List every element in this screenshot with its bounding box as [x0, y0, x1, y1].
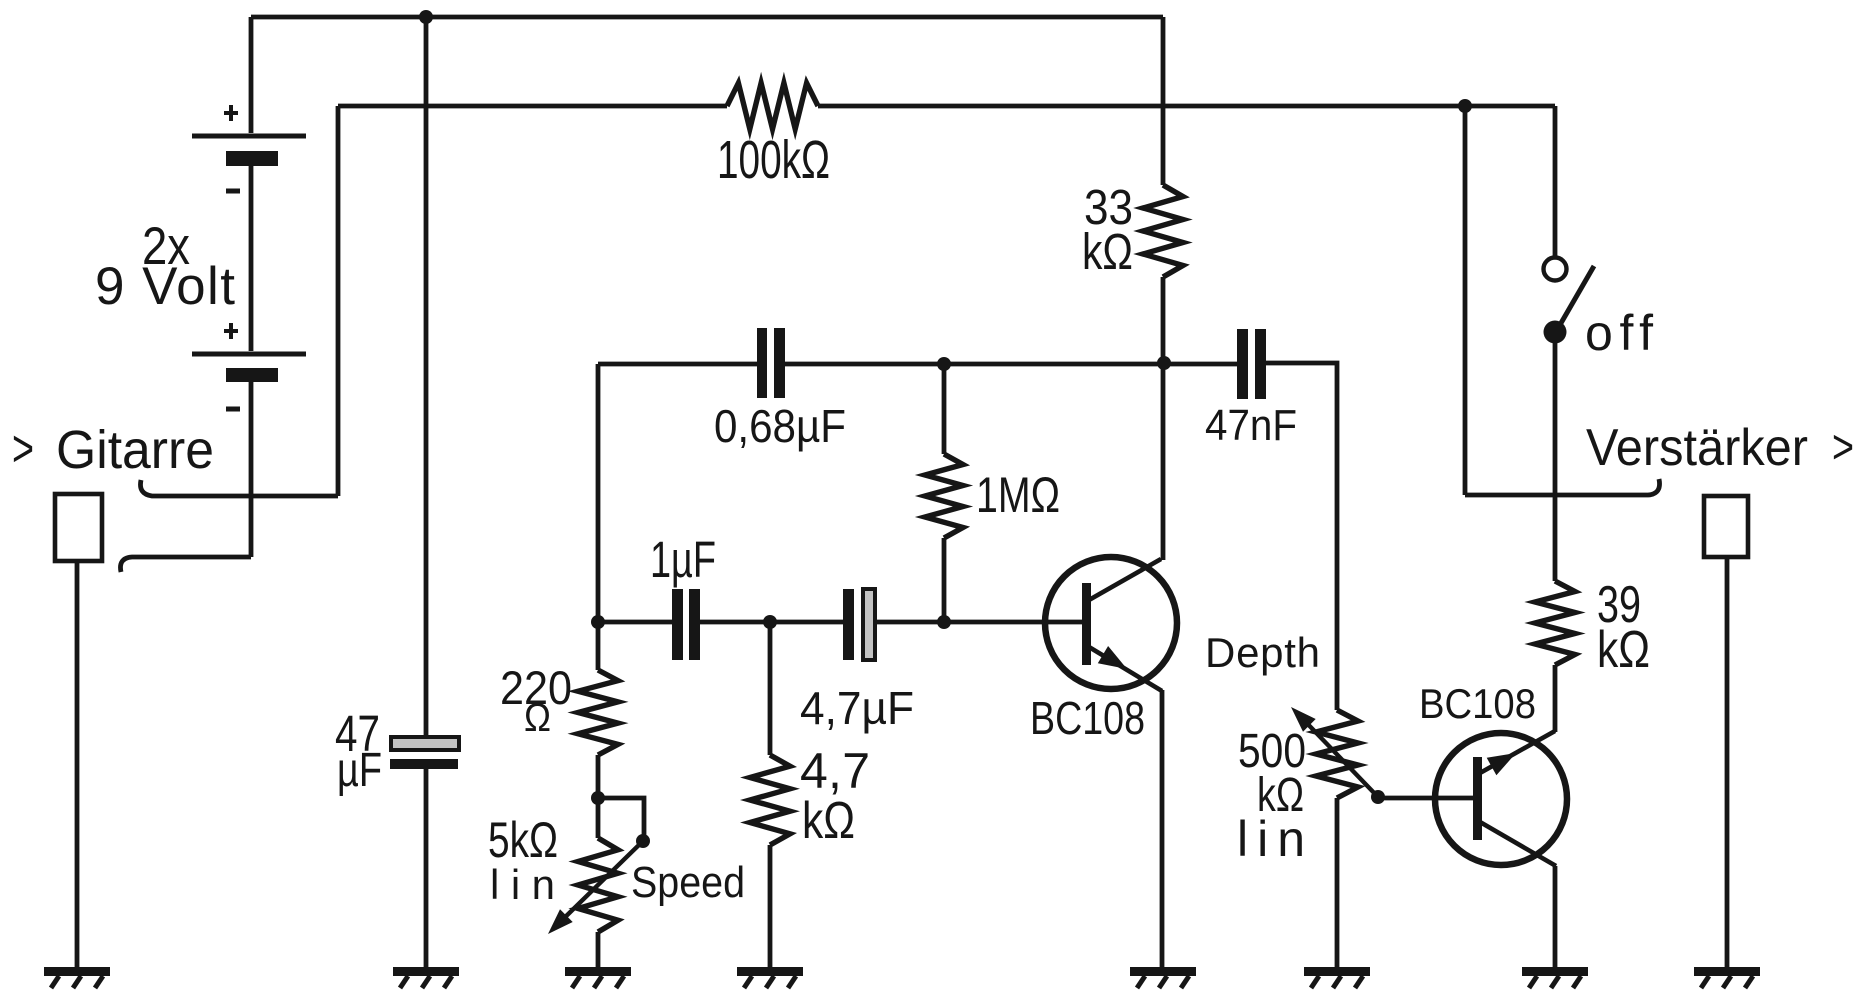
- wire feedback loop left vertical: [596, 364, 601, 622]
- wire 47uF to ground: [424, 769, 429, 967]
- ground Q1 emitter: [1130, 967, 1196, 976]
- wire Q1 emitter to ground: [1160, 690, 1165, 967]
- wire feedback loop left: [598, 362, 758, 367]
- svg-text:kΩ: kΩ: [802, 792, 855, 850]
- wire 4.7k to ground: [768, 845, 773, 967]
- node junction top rail / 47uF branch: [419, 10, 433, 24]
- resistor R1 100k: [727, 83, 818, 129]
- battery plus mark 2: [224, 323, 238, 339]
- connector input jack: [55, 494, 102, 561]
- battery minus mark 1: [226, 189, 240, 194]
- svg-text:kΩ: kΩ: [1082, 223, 1133, 280]
- wire feedback loop mid: [785, 362, 1237, 367]
- svg-text:1MΩ: 1MΩ: [976, 467, 1060, 523]
- wire 47uF branch from top rail: [424, 17, 429, 738]
- wire 33k to collector node: [1161, 277, 1166, 560]
- ground speed pot: [565, 967, 631, 976]
- wire mid supply rail left of 100k: [338, 104, 727, 109]
- svg-text:BC108: BC108: [1030, 692, 1145, 744]
- capacitor C3 4.7uF electrolytic: [843, 589, 875, 660]
- transistor Q1 BC108: [1045, 557, 1177, 691]
- ground output jack: [1694, 967, 1760, 976]
- ground Q2: [1522, 967, 1588, 976]
- wire switch to 39k: [1553, 343, 1558, 581]
- potentiometer P2 500k lin Depth: [1316, 710, 1358, 798]
- ground depth pot: [1304, 967, 1370, 976]
- wire output hot with hook: [1465, 479, 1660, 495]
- wire base line segment 1: [598, 620, 673, 625]
- svg-text:Gitarre: Gitarre: [56, 420, 214, 480]
- svg-text:Speed: Speed: [631, 858, 745, 907]
- ground 4.7k: [737, 967, 803, 976]
- node wiper connection: [636, 834, 650, 848]
- switch S1 off: [1544, 258, 1595, 344]
- wiper arrow of depth pot: [1291, 707, 1378, 797]
- wire speed pot to ground: [596, 932, 601, 967]
- wire output branch down: [1463, 106, 1468, 495]
- wire mid rail down to input hot: [336, 106, 341, 496]
- svg-text:µF: µF: [337, 744, 382, 797]
- connector output jack: [1704, 496, 1748, 557]
- node left end of base line: [591, 615, 605, 629]
- wire output jack to ground: [1725, 557, 1730, 967]
- wire top rail corner down: [1161, 17, 1166, 185]
- wire 1M top: [942, 364, 947, 454]
- wire mid supply rail right of 100k: [818, 104, 1555, 109]
- resistor R3 1M: [925, 454, 963, 538]
- potentiometer P1 5k lin Speed: [578, 838, 618, 932]
- wire input hot with hook: [140, 480, 338, 496]
- svg-text:4,7: 4,7: [800, 743, 870, 799]
- wire battery negative to input jack: [120, 557, 251, 572]
- battery minus mark 2: [226, 407, 240, 412]
- wire Q2 collector to ground: [1553, 866, 1558, 967]
- resistor R5 4.7k: [750, 755, 790, 845]
- capacitor C1 0.68uF: [757, 328, 785, 398]
- ground input jack: [44, 967, 110, 976]
- node speed pot top: [591, 791, 605, 805]
- svg-text:1µF: 1µF: [650, 531, 716, 588]
- resistor R2 33k: [1143, 185, 1183, 277]
- capacitor C5 47uF electrolytic: [390, 737, 459, 769]
- capacitor C4 47nF: [1237, 329, 1266, 399]
- wire 47nF to depth branch: [1266, 363, 1337, 710]
- wire wiper loop hook: [598, 798, 644, 838]
- wire 220R top: [596, 622, 601, 670]
- wire mid rail corner down to switch: [1553, 106, 1558, 256]
- wire depth wiper to Q2 base: [1378, 796, 1475, 801]
- svg-text:kΩ: kΩ: [1597, 621, 1650, 679]
- svg-text:9 Volt: 9 Volt: [95, 257, 235, 316]
- ground 47uF: [393, 967, 459, 976]
- svg-text:BC108: BC108: [1419, 680, 1536, 727]
- node 1M bottom junction: [937, 615, 951, 629]
- svg-text:100kΩ: 100kΩ: [717, 130, 830, 190]
- svg-text:Depth: Depth: [1205, 629, 1320, 676]
- svg-text:47nF: 47nF: [1205, 401, 1297, 450]
- wire top supply rail: [251, 15, 1163, 20]
- svg-text:5kΩ: 5kΩ: [488, 812, 558, 868]
- wire 220R to pot node: [596, 755, 601, 798]
- wire pot node to speed pot: [596, 798, 601, 838]
- battery plus mark 1: [224, 105, 238, 121]
- node 4.7k junction: [763, 615, 777, 629]
- wiper arrow of speed pot: [548, 841, 643, 934]
- capacitor C2 1uF: [672, 589, 700, 660]
- svg-text:>: >: [1832, 421, 1854, 474]
- node output junction on mid rail: [1458, 99, 1472, 113]
- battery B1 2x 9 Volt: [192, 17, 306, 557]
- svg-text:off: off: [1585, 305, 1653, 361]
- node 1M top junction: [937, 357, 951, 371]
- svg-text:>: >: [12, 420, 34, 478]
- svg-text:0,68µF: 0,68µF: [714, 400, 846, 452]
- wire 4.7k top: [768, 622, 773, 755]
- svg-text:Ω: Ω: [524, 696, 551, 740]
- transistor Q2 BC108: [1435, 731, 1567, 866]
- wire depth pot to ground: [1335, 798, 1340, 967]
- resistor R4 220R: [578, 670, 618, 755]
- wire base line segment 3 to Q1 base: [875, 620, 1085, 625]
- wire input jack to ground: [75, 561, 80, 967]
- wire 39k to Q2 emitter: [1553, 665, 1558, 732]
- node depth wiper: [1371, 790, 1385, 804]
- node collector junction: [1157, 356, 1171, 370]
- wire 1M bottom: [942, 538, 947, 622]
- svg-text:Verstärker: Verstärker: [1586, 419, 1808, 477]
- resistor R6 39k: [1535, 581, 1575, 665]
- wire base line segment 2: [700, 620, 844, 625]
- svg-text:4,7µF: 4,7µF: [800, 682, 914, 734]
